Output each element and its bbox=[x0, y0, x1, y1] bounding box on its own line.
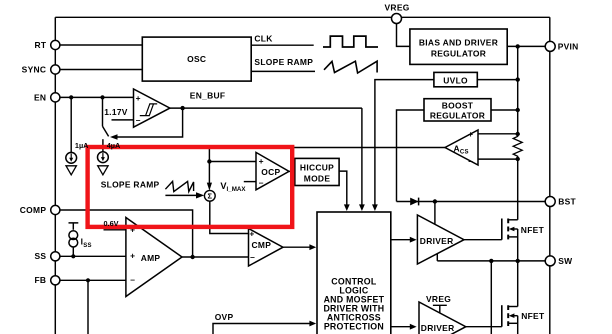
wire upper NFET source stub bbox=[508, 236, 518, 238]
wire upper NFET gate bar bbox=[501, 219, 503, 240]
svg-text:OCP: OCP bbox=[261, 167, 280, 177]
svg-text:VREG: VREG bbox=[426, 294, 451, 304]
wire CMP output bbox=[283, 246, 312, 248]
current source 1uA circle bbox=[66, 152, 77, 163]
node EN dot 2 bbox=[100, 95, 104, 99]
wire lower NFET gate lead bbox=[466, 326, 502, 328]
wire upper NFET drain stub bbox=[508, 219, 518, 221]
wire left border bbox=[54, 17, 56, 334]
svg-text:COMP: COMP bbox=[20, 205, 47, 215]
wire OVP bbox=[213, 324, 312, 334]
pin RT bbox=[51, 40, 60, 49]
svg-text:EN: EN bbox=[34, 92, 46, 102]
wire BOOST left to diode bbox=[397, 110, 425, 202]
wire EN to 1uA source bbox=[70, 97, 72, 152]
wire 1.17V stub bbox=[112, 119, 134, 121]
wire lower NFET drain stub bbox=[508, 306, 518, 308]
svg-text:RT: RT bbox=[34, 40, 46, 50]
arrow inside 4uA source bbox=[102, 153, 104, 158]
wire ISS to SS bbox=[72, 248, 74, 257]
pin SW bbox=[545, 256, 555, 266]
node bus resistor top dot bbox=[516, 132, 520, 136]
block CONTROL LOGIC bbox=[317, 212, 391, 334]
node diode BST dot bbox=[433, 199, 437, 203]
wire EN_BUF feedback to switch bbox=[117, 108, 183, 137]
svg-text:CMP: CMP bbox=[252, 240, 272, 250]
svg-text:1µA: 1µA bbox=[75, 141, 89, 150]
wire SS to AMP bbox=[60, 255, 126, 257]
svg-text:MODE: MODE bbox=[304, 173, 331, 183]
svg-text:OSC: OSC bbox=[187, 54, 206, 64]
transistor upper NFET channel bbox=[507, 219, 509, 240]
comparator CMP bbox=[249, 229, 284, 267]
svg-text:DRIVER: DRIVER bbox=[421, 323, 455, 333]
switch blade for 4uA source bbox=[103, 126, 109, 136]
node ISS SS dot bbox=[71, 254, 75, 258]
op-amp AMP bbox=[126, 218, 182, 297]
wire UVLO left to control logic bbox=[375, 80, 434, 207]
driver upper bbox=[417, 215, 464, 264]
svg-text:SYNC: SYNC bbox=[22, 64, 47, 74]
svg-text:OVP: OVP bbox=[215, 312, 234, 322]
block HICCUP MODE bbox=[295, 158, 339, 185]
driver lower bbox=[419, 302, 466, 334]
arrowhead CMP into control logic bbox=[309, 244, 316, 250]
svg-text:HICCUP: HICCUP bbox=[300, 162, 334, 172]
arrowhead EN_BUF feedback bbox=[110, 134, 118, 140]
arrowhead OVP into control logic bbox=[309, 321, 316, 327]
wire V_I_MAX stub to OCP minus bbox=[244, 181, 256, 183]
node bus PVIN dot bbox=[516, 44, 520, 48]
block BIAS AND DRIVER REGULATOR bbox=[410, 29, 507, 64]
wire FB to AMP bbox=[60, 279, 126, 281]
wire EN_BUF bbox=[170, 107, 362, 109]
wire SW line bbox=[437, 260, 546, 262]
wire SLOPE RAMP output bbox=[251, 70, 315, 72]
svg-text:BOOST: BOOST bbox=[442, 101, 474, 111]
wire 0.6V stub bbox=[104, 229, 126, 231]
wire ACS minus input to bus bbox=[478, 158, 518, 160]
resistor on PVIN bus bbox=[513, 134, 522, 159]
wire diode junction to driver bbox=[434, 202, 436, 225]
waveform slope ramp sawtooth in red box bbox=[165, 181, 193, 191]
svg-text:0.6V: 0.6V bbox=[104, 219, 119, 228]
wire BOOST right to PVIN bus bbox=[491, 109, 518, 111]
wire ACS output to summer bbox=[209, 148, 445, 185]
pin VREG bbox=[392, 14, 402, 24]
wire EN to switch top bbox=[102, 97, 104, 126]
diode BST bbox=[410, 198, 418, 206]
oscillator OSC box bbox=[142, 29, 507, 334]
arrowhead HICCUP into control logic bbox=[344, 204, 350, 211]
node PVIN bus bbox=[517, 46, 519, 134]
wire BIAS box to PVIN bbox=[507, 45, 545, 47]
svg-text:FB: FB bbox=[34, 275, 46, 285]
wire EN_BUF down to control logic bbox=[361, 108, 363, 206]
svg-text:+: + bbox=[249, 229, 254, 239]
wire VREG stub lower driver bbox=[433, 305, 447, 313]
wire upper NFET gate lead bbox=[464, 239, 502, 241]
svg-text:+: + bbox=[136, 93, 141, 103]
wire driver input upper bbox=[391, 239, 411, 241]
arrow inside 1uA source bbox=[70, 154, 72, 159]
svg-text:PVIN: PVIN bbox=[558, 41, 579, 51]
wire switch to 4uA source bbox=[102, 139, 104, 152]
current source ISS circles bbox=[69, 231, 78, 240]
node EN dot 1 bbox=[69, 95, 73, 99]
svg-text:SW: SW bbox=[558, 256, 572, 266]
svg-text:PROTECTION: PROTECTION bbox=[324, 322, 384, 332]
svg-text:–: – bbox=[468, 156, 473, 166]
svg-text:DRIVER: DRIVER bbox=[420, 236, 454, 246]
wire lower NFET gate bar bbox=[501, 305, 503, 327]
waveform slope ramp sawtooth top bbox=[324, 61, 377, 73]
wire slope ramp arrow to summer bbox=[165, 194, 196, 196]
pin SS bbox=[51, 252, 60, 261]
arrowhead slope ramp into summer bbox=[196, 192, 204, 198]
svg-text:–: – bbox=[130, 275, 135, 285]
svg-text:REGULATOR: REGULATOR bbox=[431, 49, 486, 59]
svg-text:VREG: VREG bbox=[385, 3, 410, 13]
svg-text:UVLO: UVLO bbox=[443, 76, 468, 86]
ground arrow 1uA bbox=[66, 166, 76, 175]
transistor lower NFET channel bbox=[507, 305, 509, 326]
wire VREG to BIAS box bbox=[397, 24, 410, 47]
svg-text:+: + bbox=[468, 129, 473, 139]
block UVLO bbox=[434, 72, 477, 86]
wire diode to BST bbox=[397, 201, 546, 203]
wire RT to OSC bbox=[60, 44, 142, 46]
wire SYNC to OSC bbox=[60, 69, 142, 71]
wire SW branch down bbox=[490, 261, 492, 334]
svg-text:BST: BST bbox=[558, 197, 576, 207]
node bus resistor bottom dot bbox=[516, 157, 520, 161]
pin EN bbox=[51, 93, 60, 102]
wire lower NFET body bbox=[514, 315, 518, 317]
pin FB bbox=[51, 276, 60, 285]
wire COMP to AMP output node bbox=[60, 210, 193, 257]
wire UVLO right to PVIN bus bbox=[477, 79, 517, 81]
node bus BOOST dot bbox=[516, 108, 520, 112]
wire lower NFET drain to SW bbox=[517, 261, 519, 307]
arrowhead into lower driver bbox=[410, 324, 417, 330]
svg-text:–: – bbox=[250, 252, 255, 262]
wire ISS top bar bbox=[69, 223, 79, 230]
svg-text:1.17V: 1.17V bbox=[104, 107, 128, 117]
current source 4uA circle bbox=[98, 152, 109, 163]
comparator OCP bbox=[256, 152, 289, 189]
svg-text:–: – bbox=[136, 115, 141, 125]
waveform CLK square wave bbox=[323, 36, 378, 47]
amplifier ACS bbox=[445, 130, 478, 165]
wire summer to CMP plus bbox=[210, 201, 249, 233]
wire OCP plus input bbox=[209, 161, 256, 163]
arrowhead ACS into summer bbox=[207, 183, 212, 191]
svg-text:BIAS AND DRIVER: BIAS AND DRIVER bbox=[419, 37, 498, 47]
svg-text:SLOPE RAMP: SLOPE RAMP bbox=[254, 57, 313, 67]
svg-text:+: + bbox=[130, 250, 135, 260]
hysteresis glyph bbox=[140, 104, 157, 116]
wire right border bbox=[549, 17, 551, 334]
wire FB down bbox=[87, 280, 89, 334]
ground arrow 4uA bbox=[98, 166, 108, 175]
node AMP output dot bbox=[190, 255, 194, 259]
wire EN to comparator bbox=[60, 96, 134, 98]
arrowhead upper NFET body bbox=[509, 227, 515, 232]
annotation red highlight box bbox=[88, 147, 293, 227]
node EN_BUF dot bbox=[180, 106, 184, 110]
svg-text:NFET: NFET bbox=[521, 311, 545, 321]
node bus UVLO dot bbox=[516, 77, 520, 81]
svg-text:AMP: AMP bbox=[141, 253, 161, 263]
pin COMP bbox=[51, 205, 60, 214]
wire lower NFET source down bbox=[517, 316, 519, 334]
pin BST bbox=[545, 197, 555, 207]
wire lower NFET source stub bbox=[508, 322, 518, 324]
comparator EN 1.17V bbox=[134, 89, 170, 127]
svg-text:NFET: NFET bbox=[521, 225, 545, 235]
pin SYNC bbox=[51, 65, 60, 74]
wire driver input lower bbox=[391, 326, 411, 328]
svg-text:SLOPE RAMP: SLOPE RAMP bbox=[101, 180, 160, 190]
wire CLK bbox=[251, 44, 314, 46]
svg-text:4µA: 4µA bbox=[107, 141, 121, 150]
arrowhead UVLO into control logic bbox=[372, 204, 378, 211]
pin PVIN bbox=[545, 41, 555, 51]
wire AMP output to CMP minus bbox=[182, 256, 249, 258]
node OCP input dot bbox=[207, 159, 211, 163]
svg-text:Σ: Σ bbox=[208, 192, 213, 201]
block BOOST REGULATOR bbox=[424, 99, 491, 121]
arrowhead into upper driver bbox=[410, 237, 417, 243]
wire OCP to HICCUP bbox=[289, 170, 295, 172]
svg-text:+: + bbox=[259, 156, 264, 166]
wire HICCUP to control logic bbox=[339, 171, 347, 206]
wire ACS plus input to bus bbox=[478, 133, 518, 135]
arrowhead lower NFET body bbox=[509, 313, 515, 318]
wire upper NFET source to SW bbox=[517, 229, 519, 261]
summer sigma circle bbox=[204, 190, 215, 201]
node SW dot 1 bbox=[489, 259, 493, 263]
svg-text:SS: SS bbox=[34, 251, 46, 261]
wire top border bbox=[55, 16, 550, 18]
wire PVIN bus lower bbox=[517, 159, 519, 220]
svg-text:REGULATOR: REGULATOR bbox=[430, 110, 485, 120]
svg-text:–: – bbox=[259, 178, 264, 188]
node FB dot bbox=[86, 278, 90, 282]
svg-text:EN_BUF: EN_BUF bbox=[190, 91, 226, 101]
node SW dot 2 bbox=[516, 259, 520, 263]
wire upper NFET body bbox=[514, 228, 518, 230]
arrowhead EN_BUF into control logic bbox=[359, 204, 365, 211]
svg-text:CLK: CLK bbox=[254, 34, 273, 44]
wire upper driver bottom to SW bbox=[436, 254, 438, 261]
